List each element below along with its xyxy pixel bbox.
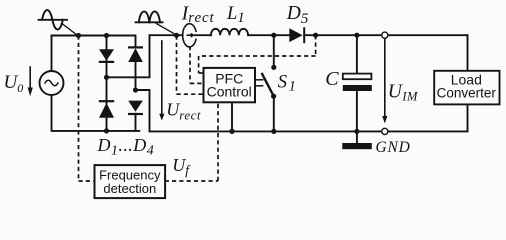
svg-text:Converter: Converter	[437, 85, 497, 100]
svg-text:Control: Control	[207, 84, 252, 100]
svg-text:C: C	[325, 68, 339, 90]
svg-text:detection: detection	[103, 181, 156, 196]
svg-text:GND: GND	[376, 139, 411, 156]
